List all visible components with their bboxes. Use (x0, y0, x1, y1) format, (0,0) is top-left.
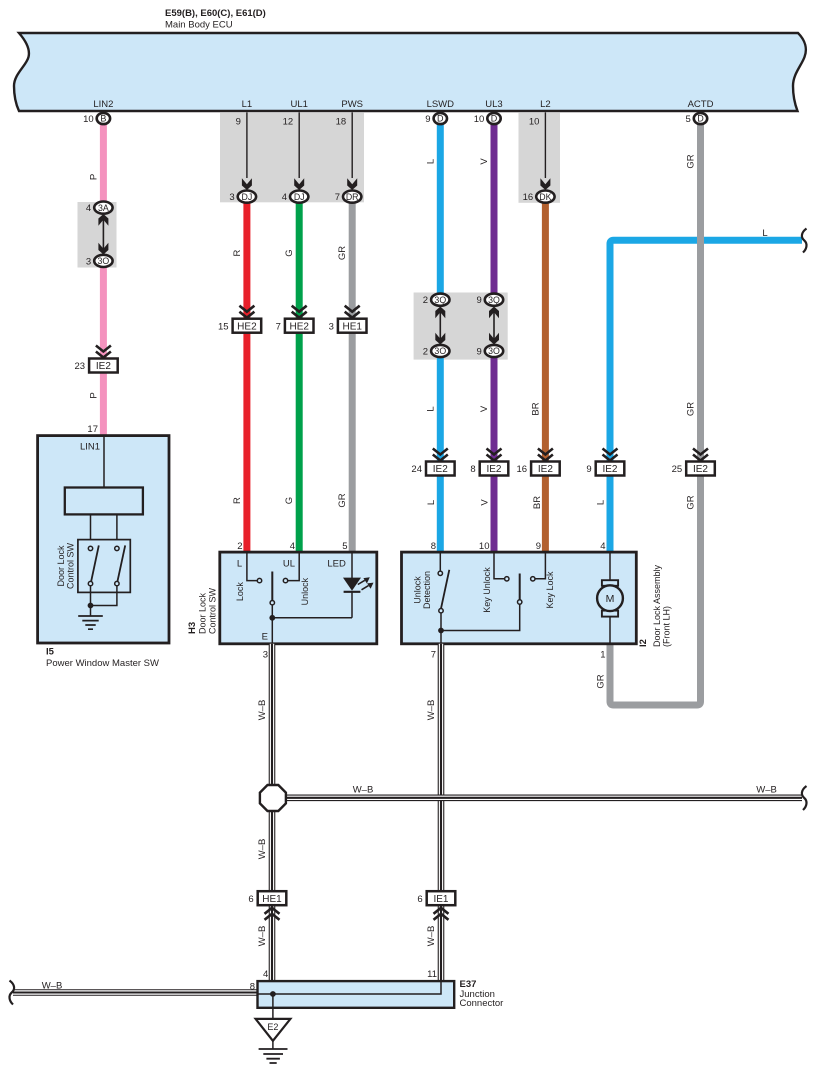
svg-text:Lock: Lock (235, 582, 245, 602)
svg-text:3A: 3A (98, 203, 109, 213)
wire: unlock detection to pin 7 (440, 613, 442, 644)
junction arrows between 3Q and 3O (right) (493, 311, 495, 340)
wire: pink P from connector 3O to I5 box (100, 265, 107, 436)
svg-text:GR: GR (686, 154, 697, 168)
svg-text:3: 3 (263, 650, 268, 661)
svg-text:L: L (595, 500, 606, 505)
motor M of I2 (602, 580, 618, 586)
connector 9 (3O) right (485, 345, 503, 357)
svg-text:L: L (425, 159, 436, 164)
svg-text:DK: DK (539, 192, 551, 202)
svg-text:W–B: W–B (257, 839, 268, 860)
key unlock contact lead (494, 552, 505, 579)
component E37 Junction Connector (258, 981, 455, 1008)
svg-text:17: 17 (87, 424, 98, 435)
wire: internal harness lead at x=299.2 (298, 112, 300, 178)
svg-text:2: 2 (423, 346, 428, 357)
switch enclosure inside I5 (78, 540, 130, 593)
svg-text:E59(B), E60(C), E61(D): E59(B), E60(C), E61(D) (165, 8, 266, 19)
chevrons into 25 IE2 (693, 449, 708, 461)
component H3 Door Lock Control SW box (220, 552, 377, 644)
svg-text:Unlock: Unlock (413, 576, 423, 604)
gray shield box: 3Q/3O transitions (414, 293, 508, 360)
svg-text:W–B: W–B (426, 700, 437, 721)
junction dot (88, 603, 94, 609)
svg-text:D: D (491, 114, 498, 124)
svg-text:PWS: PWS (341, 99, 363, 110)
svg-text:HE1: HE1 (262, 894, 282, 905)
svg-text:L: L (426, 500, 437, 505)
svg-text:V: V (479, 405, 490, 412)
connector 16 IE2 (531, 462, 560, 476)
svg-text:LIN1: LIN1 (80, 442, 100, 453)
svg-text:Control SW: Control SW (66, 542, 76, 589)
unlock detection blade (441, 570, 449, 609)
svg-text:DJ: DJ (242, 192, 253, 202)
svg-text:8: 8 (250, 982, 255, 993)
pin 5 (D) of ECU ACTD (694, 113, 707, 124)
svg-text:M: M (606, 593, 615, 605)
svg-text:UL: UL (283, 559, 295, 570)
key switch common blade (519, 574, 521, 600)
connector 7 (DR) (343, 191, 361, 203)
svg-text:I2: I2 (638, 639, 649, 647)
svg-text:4: 4 (290, 541, 295, 552)
svg-text:1: 1 (600, 650, 605, 661)
wire: internal harness lead at x=246.9 (246, 112, 248, 178)
svg-text:4: 4 (600, 541, 605, 552)
gray shield box: DK transition (519, 112, 561, 203)
wire: key switch common to junction dot (441, 604, 520, 630)
component I2 Door Lock Assembly box (402, 552, 637, 644)
key lock contact lead (535, 552, 545, 579)
wire: green G from DJ to H3 pin 4 (296, 200, 303, 552)
svg-text:8: 8 (431, 541, 436, 552)
svg-text:IE2: IE2 (433, 464, 448, 475)
svg-text:Key Lock: Key Lock (545, 571, 555, 609)
component I5 Power Window Master SW box (38, 436, 169, 643)
svg-text:G: G (284, 249, 295, 256)
svg-text:11: 11 (427, 969, 437, 980)
wire: brown BR from DK to I2 pin 9 (542, 200, 549, 552)
svg-text:15: 15 (218, 321, 229, 332)
svg-text:7: 7 (335, 192, 340, 203)
svg-text:P: P (88, 392, 99, 398)
wire: common to LED cathode (272, 592, 352, 618)
svg-text:2: 2 (423, 295, 428, 306)
gray shield box: DJ/DJ/DR transition (220, 112, 364, 202)
pin 10 (D) of ECU UL3 (487, 113, 500, 124)
connector 16 (DK) (536, 191, 554, 203)
break symbol: W-B left edge (10, 981, 15, 1005)
chevrons into 16 IE2 (538, 449, 553, 461)
svg-text:9: 9 (236, 117, 241, 128)
wire: violet V from connector 3O to I2 pin 10 (491, 355, 498, 552)
wire: H3 unlock contact lead (288, 552, 300, 581)
junction dot on common (269, 615, 275, 621)
wire: pin 4 to motor (609, 552, 611, 580)
svg-text:Power Window Master SW: Power Window Master SW (46, 658, 159, 669)
svg-text:7: 7 (431, 650, 436, 661)
svg-text:D: D (437, 114, 444, 124)
junction arrows between 3Q and 3O (left) (439, 311, 441, 340)
svg-text:10: 10 (479, 541, 490, 552)
svg-text:L: L (762, 228, 767, 239)
connector 2 (3Q) left (431, 294, 449, 306)
svg-text:LSWD: LSWD (427, 99, 455, 110)
control block rectangle inside I5 (65, 488, 143, 515)
svg-text:GR: GR (596, 674, 607, 688)
svg-text:Connector: Connector (460, 998, 504, 1009)
wire: red R from DJ to H3 pin 2 (243, 200, 250, 552)
svg-text:IE2: IE2 (96, 361, 111, 372)
svg-text:IE2: IE2 (538, 464, 553, 475)
svg-text:HE1: HE1 (342, 321, 362, 332)
wire: gray GR from DR to H3 pin 5 (349, 200, 356, 552)
chevrons into 3 HE1 (345, 306, 360, 318)
connector 3 HE1 (338, 319, 367, 333)
svg-text:9: 9 (425, 114, 430, 125)
wire: internal harness lead at x=545.4 (544, 112, 546, 178)
switch contact circles (88, 546, 92, 550)
wire: light-blue L from right-edge break to I2 pin 4 (motor feed) (610, 240, 802, 552)
svg-text:V: V (480, 499, 491, 506)
chevrons into 7 HE2 (292, 306, 307, 318)
svg-text:25: 25 (672, 464, 683, 475)
wire: pin 5 to LED anode (351, 552, 353, 578)
connector 9 IE2 (596, 462, 625, 476)
svg-text:GR: GR (686, 495, 697, 509)
connector 6 IE1 (427, 891, 456, 905)
svg-text:10: 10 (529, 117, 540, 128)
junction octagon (260, 785, 286, 811)
pin 10 (B) of ECU LIN2 (97, 113, 110, 124)
svg-text:D: D (697, 114, 704, 124)
wire: block to switch contacts (90, 514, 92, 539)
LED emission arrows (358, 580, 365, 584)
svg-text:W–B: W–B (353, 785, 374, 796)
svg-text:UL1: UL1 (290, 99, 307, 110)
svg-text:Door Lock: Door Lock (198, 592, 208, 634)
svg-text:6: 6 (417, 894, 422, 905)
svg-text:E: E (262, 632, 268, 643)
wire: pink P from ECU LIN2 pin B to connector 3A (100, 122, 107, 203)
svg-text:L1: L1 (242, 99, 253, 110)
svg-text:Key Unlock: Key Unlock (482, 567, 492, 613)
wire: E37 to E2 ground (272, 994, 274, 1019)
svg-text:3O: 3O (488, 346, 500, 356)
svg-text:ACTD: ACTD (688, 99, 714, 110)
svg-text:3O: 3O (434, 346, 446, 356)
svg-text:3O: 3O (98, 256, 110, 266)
Main Body ECU band (torn-edge bus rectangle) (14, 33, 806, 111)
wire: W-B from H3 pin E to E37 pin 4 (269, 644, 276, 981)
svg-text:Detection: Detection (422, 571, 432, 609)
wire: internal lead from pin 17 to control block (103, 436, 105, 488)
chevrons into 9 IE2 (603, 449, 618, 461)
svg-text:IE2: IE2 (486, 464, 501, 475)
svg-text:3Q: 3Q (434, 295, 446, 305)
svg-text:UL3: UL3 (485, 99, 502, 110)
wire: contacts to ground bus (90, 586, 92, 616)
svg-text:IE1: IE1 (433, 894, 448, 905)
junction dot in E37 (270, 991, 276, 997)
wire: motor to pin 1 (609, 617, 611, 644)
svg-text:HE2: HE2 (237, 321, 257, 332)
wire: violet V from ECU UL3 to connector 3Q (491, 122, 498, 296)
chevrons out of 6 IE1 (434, 908, 449, 920)
connector 4 (3A) (94, 202, 112, 214)
svg-text:GR: GR (337, 493, 348, 507)
svg-text:12: 12 (283, 117, 294, 128)
chevrons out of 6 HE1 (265, 908, 280, 920)
wire: common to pin E (271, 605, 273, 644)
svg-text:LIN2: LIN2 (93, 99, 113, 110)
svg-text:Door Lock: Door Lock (56, 545, 66, 587)
unlock detection switch lead (439, 552, 441, 571)
svg-text:9: 9 (586, 464, 591, 475)
svg-text:R: R (232, 497, 243, 504)
svg-text:4: 4 (282, 192, 287, 203)
wire: H3 lock contact lead (247, 552, 257, 581)
ground point E2 triangle (256, 1019, 291, 1041)
svg-text:3Q: 3Q (488, 295, 500, 305)
svg-text:9: 9 (477, 346, 482, 357)
chevrons into 23 IE2 (96, 346, 111, 358)
svg-text:W–B: W–B (42, 981, 63, 992)
svg-text:IE2: IE2 (693, 464, 708, 475)
wire: W-B from I2 pin 7 to E37 pin 11 (438, 644, 445, 981)
svg-text:W–B: W–B (756, 785, 777, 796)
svg-text:16: 16 (523, 192, 534, 203)
chevrons into 8 IE2 (487, 449, 502, 461)
svg-text:G: G (284, 497, 295, 504)
svg-text:7: 7 (276, 321, 281, 332)
svg-text:24: 24 (411, 464, 422, 475)
svg-text:P: P (88, 174, 99, 180)
svg-text:3: 3 (329, 321, 334, 332)
ground symbol at E2 (272, 1041, 274, 1049)
connector 4 (DJ) (290, 191, 308, 203)
connector 6 HE1 (258, 891, 287, 905)
svg-text:H3: H3 (187, 622, 198, 634)
connector 15 HE2 (233, 319, 262, 333)
svg-text:16: 16 (517, 464, 528, 475)
svg-text:9: 9 (536, 541, 541, 552)
svg-text:W–B: W–B (257, 926, 268, 947)
svg-text:10: 10 (474, 114, 485, 125)
chevrons into 24 IE2 (433, 449, 448, 461)
internal bus of E37 (258, 981, 442, 994)
junction dot I2 (438, 628, 444, 634)
svg-text:6: 6 (248, 894, 253, 905)
connector 7 HE2 (285, 319, 314, 333)
wire: light-blue L from ECU LSWD to connector 3Q (437, 122, 444, 296)
connector 24 IE2 (426, 462, 455, 476)
svg-text:(Front LH): (Front LH) (662, 606, 672, 647)
svg-text:18: 18 (336, 117, 347, 128)
connector 2 (3O) left (431, 345, 449, 357)
svg-text:3: 3 (229, 192, 234, 203)
junction arrows between 3A and 3O (102, 219, 104, 250)
ground symbol inside I5 (78, 616, 103, 629)
break symbol: W-B bus right edge (802, 786, 807, 810)
svg-text:Control SW: Control SW (208, 587, 218, 634)
svg-text:5: 5 (686, 114, 691, 125)
svg-text:8: 8 (470, 464, 475, 475)
svg-text:L: L (237, 559, 242, 570)
wire: gray GR hook from I2 pin 1 down, right, and up to ECU ACTD pin 5 (610, 122, 701, 705)
svg-text:Main Body ECU: Main Body ECU (165, 20, 233, 31)
switch blade common of H3 (271, 572, 273, 601)
svg-text:9: 9 (477, 295, 482, 306)
svg-text:BR: BR (530, 402, 541, 415)
svg-text:10: 10 (83, 114, 94, 125)
svg-text:HE2: HE2 (289, 321, 309, 332)
LED symbol (343, 578, 361, 591)
svg-text:B: B (100, 114, 106, 124)
svg-text:4: 4 (263, 969, 268, 980)
svg-text:2: 2 (237, 541, 242, 552)
connector 8 IE2 (480, 462, 509, 476)
connector 3 (3O) (94, 255, 112, 267)
wire: internal harness lead at x=352.2 (351, 112, 353, 178)
wire: W-B horizontal from left edge to E37 pin 8 (13, 989, 259, 996)
svg-text:L: L (425, 406, 436, 411)
pin 9 (D) of ECU LSWD (434, 113, 447, 124)
svg-text:3: 3 (86, 256, 91, 267)
svg-text:Door Lock Assembly: Door Lock Assembly (652, 564, 662, 647)
svg-text:V: V (479, 158, 490, 165)
svg-text:BR: BR (532, 496, 543, 509)
svg-text:I5: I5 (46, 647, 55, 658)
gray shield box: LIN2 3A/3O transition (78, 202, 117, 268)
connector 3 (DJ) (238, 191, 256, 203)
connector 23 IE2 (89, 359, 118, 373)
svg-text:DJ: DJ (294, 192, 305, 202)
svg-text:E2: E2 (267, 1022, 278, 1032)
svg-text:W–B: W–B (257, 700, 268, 721)
svg-text:5: 5 (342, 541, 347, 552)
wire: W-B horizontal bus to right edge (273, 794, 802, 801)
switch blades (91, 545, 99, 581)
svg-text:W–B: W–B (426, 926, 437, 947)
svg-text:23: 23 (75, 361, 86, 372)
svg-text:Unlock: Unlock (300, 577, 310, 605)
svg-text:R: R (232, 249, 243, 256)
svg-text:4: 4 (86, 203, 91, 214)
wire: light-blue L from connector 3O to I2 pin 8 (437, 355, 444, 552)
chevrons into 15 HE2 (239, 306, 254, 318)
svg-text:GR: GR (686, 402, 697, 416)
connector 25 IE2 (686, 462, 715, 476)
svg-text:DR: DR (346, 192, 359, 202)
svg-text:L2: L2 (540, 99, 551, 110)
connector 9 (3Q) right (485, 294, 503, 306)
svg-text:IE2: IE2 (602, 464, 617, 475)
break symbol: light-blue L wire right edge (802, 229, 807, 253)
svg-text:LED: LED (327, 559, 346, 570)
svg-text:GR: GR (337, 246, 348, 260)
